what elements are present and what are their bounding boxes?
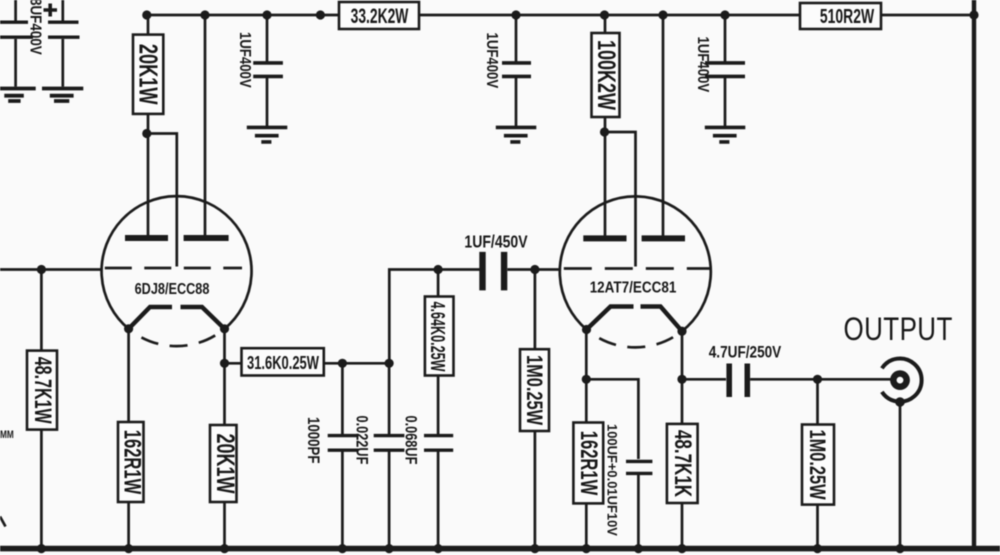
resistor 20K1W (V1b cathode) <box>210 425 240 549</box>
capacitor 0.068UF <box>401 416 453 550</box>
capacitor 1UF400V (third) <box>694 15 745 126</box>
junction dots mid nodes <box>37 127 822 384</box>
resistor 162R1W (V1a cathode) <box>118 422 145 549</box>
wire to V1 left plate <box>147 134 150 237</box>
svg-text:4.7UF/250V: 4.7UF/250V <box>709 343 782 362</box>
capacitor 0.022UF <box>352 363 404 549</box>
wire V1 left cathode down <box>127 329 130 422</box>
V2 right anode plate <box>642 235 685 241</box>
capacitor 1UF400V (first) <box>236 15 283 126</box>
V2 left cathode <box>587 307 634 330</box>
label 6DJ8/ECC88 <box>135 281 210 298</box>
wire B+ top rail <box>147 14 974 17</box>
svg-text:510R2W: 510R2W <box>820 4 875 27</box>
RCA jack outer shell <box>882 359 922 402</box>
svg-text:1UF/450V: 1UF/450V <box>464 232 527 252</box>
ground bus (bottom) <box>0 546 1000 552</box>
V2 right cathode <box>641 307 683 332</box>
svg-text:1M0.25W: 1M0.25W <box>804 429 829 500</box>
svg-text:OUTPUT: OUTPUT <box>844 311 953 347</box>
input wire to V1 grid <box>0 268 102 271</box>
wire V2 left cathode down <box>585 330 588 423</box>
V1 right anode plate <box>184 235 229 241</box>
resistor 510R2W <box>800 3 881 29</box>
V2 left anode plate <box>583 235 626 241</box>
V2 grid (dashed) <box>564 267 711 270</box>
capacitor 1UF400V (second) <box>483 15 531 126</box>
capacitor 1000PF <box>304 363 359 549</box>
ground (second 1UF cap) <box>496 127 537 141</box>
tube V2 12AT7/ECC81 envelope <box>560 196 711 347</box>
tube V1 6DJ8/ECC88 envelope <box>102 196 252 346</box>
junction dots ground bus <box>37 544 905 553</box>
wire V2 right cathode down <box>681 331 684 424</box>
wire to V1 right plate <box>204 15 207 236</box>
wire jog to V1 grid (upper triode) <box>148 134 177 267</box>
svg-text:6DJ8/ECC88: 6DJ8/ECC88 <box>135 281 210 298</box>
svg-text:1000PF: 1000PF <box>304 417 323 463</box>
V1 grid (dashed) <box>105 267 242 270</box>
capacitor 100UF+0.01UF10V (cathode bypass) <box>604 424 652 549</box>
svg-text:31.6K0.25W: 31.6K0.25W <box>247 354 320 374</box>
resistor 162R1W (V2a cathode) <box>573 423 603 550</box>
resistor 33.2K2W <box>339 2 419 29</box>
svg-text:48.7K1K: 48.7K1K <box>669 430 696 497</box>
ground (left electrolytic) <box>0 89 36 102</box>
label MM (cut text at left edge) <box>0 429 14 441</box>
wire jog to V2 grid (upper triode) <box>605 132 636 267</box>
svg-text:48.7K1W: 48.7K1W <box>29 357 55 425</box>
junction dots top rail <box>142 10 978 19</box>
svg-text:162R1W: 162R1W <box>119 430 146 495</box>
electrolytic capacitor 8UF400V (right) with + <box>44 0 80 87</box>
svg-text:100UF+0.01UF10V: 100UF+0.01UF10V <box>604 424 619 536</box>
ground (third 1UF cap) <box>705 127 746 141</box>
resistor 1M0.25W (V2 grid leak) <box>520 270 549 550</box>
wire to V2 left plate <box>604 132 607 236</box>
svg-text:1M0.25W: 1M0.25W <box>521 355 546 426</box>
ground (first 1UF cap) <box>247 127 287 141</box>
V1 left anode plate <box>125 235 168 241</box>
ground (right electrolytic) <box>42 89 83 102</box>
resistor 1M0.25W (output load) <box>802 379 834 549</box>
resistor 48.7K1K (V2b cathode) <box>667 424 698 549</box>
electrolytic capacitor 8UF400V (left, partial) <box>0 0 43 87</box>
svg-text:0.068UF: 0.068UF <box>401 416 420 465</box>
stray mark bottom left <box>0 517 6 527</box>
svg-text:20K1W: 20K1W <box>134 44 163 105</box>
wire to V2 right plate <box>662 15 665 236</box>
wire right rail down <box>972 0 976 549</box>
svg-text:0.022UF: 0.022UF <box>352 416 371 465</box>
resistor 4.64K0.25W <box>425 270 454 435</box>
resistor 100K2W (V2a plate load) <box>592 15 622 132</box>
svg-text:1UF400V: 1UF400V <box>236 32 253 88</box>
wire V1 right cathode down <box>223 329 226 425</box>
capacitor 4.7UF/250V (output coupling) <box>682 343 891 397</box>
label 12AT7/ECC81 <box>590 280 677 297</box>
svg-text:20K1W: 20K1W <box>211 434 240 494</box>
resistor 31.6K0.25W <box>225 348 390 375</box>
svg-text:4.64K0.25W: 4.64K0.25W <box>426 301 449 371</box>
capacitor 1UF/450V (coupling) <box>464 232 560 291</box>
svg-text:1UF400V: 1UF400V <box>483 33 500 89</box>
svg-text:162R1W: 162R1W <box>575 431 602 496</box>
resistor 20K1W (V1a plate load) <box>133 15 163 134</box>
V1 left cathode <box>129 307 172 329</box>
svg-text:MM: MM <box>0 429 14 441</box>
resistor 48.7K1W <box>27 270 57 550</box>
svg-text:8UF400V: 8UF400V <box>26 0 43 55</box>
svg-text:33.2K2W: 33.2K2W <box>351 4 409 28</box>
RCA jack ground lug + wire down <box>895 397 905 549</box>
RCA jack center pin <box>890 370 910 390</box>
svg-text:100K2W: 100K2W <box>592 40 621 110</box>
svg-text:12AT7/ECC81: 12AT7/ECC81 <box>590 280 677 297</box>
svg-text:1UF400V: 1UF400V <box>694 37 711 93</box>
V1 right cathode <box>181 307 225 329</box>
wire jog to bypass cap <box>586 379 638 459</box>
label OUTPUT <box>844 311 953 347</box>
wire node B up to coupling line <box>389 270 482 364</box>
